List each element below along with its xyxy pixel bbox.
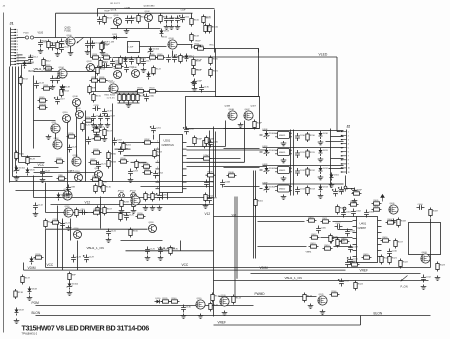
capacitor C121 (96, 162, 107, 170)
svg-text:R115: R115 (103, 62, 109, 64)
resistor R30B (92, 127, 102, 132)
svg-text:7: 7 (157, 180, 158, 182)
resistor R135 (169, 246, 179, 256)
svg-text:R206: R206 (144, 163, 150, 165)
svg-text:ZD300: ZD300 (269, 133, 276, 135)
svg-text:V12: V12 (85, 201, 91, 205)
transistor Q112 (53, 138, 62, 149)
resistor C123 (51, 219, 61, 224)
resistor R166 (96, 206, 106, 216)
transistor Q119 (196, 298, 205, 309)
svg-text:R154: R154 (100, 69, 106, 71)
svg-text:D312: D312 (323, 168, 329, 170)
svg-text:C8G: C8G (81, 209, 86, 211)
svg-text:C123: C123 (53, 219, 59, 221)
wire J1 down bus5 (21, 65, 23, 157)
capacitor C412 (421, 275, 432, 283)
capacitor C405 (316, 226, 327, 234)
wire U201 right pin 14 (183, 175, 187, 177)
transistor Q401 (389, 203, 398, 214)
wire J2 stub 7 (331, 158, 344, 160)
capacitor C126 (145, 247, 156, 255)
svg-text:OZ9957GN: OZ9957GN (162, 144, 174, 147)
svg-text:R12F: R12F (197, 60, 203, 62)
svg-text:R157: R157 (107, 131, 113, 133)
svg-text:C10M: C10M (125, 8, 131, 10)
resistor R129 (94, 184, 104, 194)
wire J2 stub 10 (329, 168, 344, 170)
ground (320, 310, 326, 315)
svg-text:R100: R100 (42, 41, 48, 43)
IC U401 body (357, 217, 378, 263)
transistor Q117 (131, 194, 140, 205)
diode D311 (319, 148, 329, 156)
wire top rail joint (97, 9, 99, 17)
wire row feed (224, 148, 260, 150)
transistor Q108 (73, 96, 81, 107)
wire vertical x255 (255, 171, 257, 259)
resistor R8D (99, 179, 108, 189)
svg-text:VBH1_1_ON: VBH1_1_ON (87, 246, 104, 250)
ground (105, 123, 111, 128)
diode D108 (28, 287, 38, 295)
wire mid vertical x100 (100, 197, 102, 229)
svg-text:R159: R159 (94, 209, 100, 211)
wire row y57 (113, 57, 149, 59)
svg-text:R132: R132 (48, 222, 54, 224)
resistor R401 (254, 198, 264, 208)
svg-text:Q108: Q108 (73, 96, 79, 98)
wire to U401 pin2 (333, 221, 353, 223)
resistor R123 (136, 88, 146, 93)
svg-text:C20B: C20B (123, 149, 129, 151)
svg-text:C409: C409 (353, 247, 359, 249)
wire to U401 pin3 (338, 229, 353, 231)
svg-text:T315HW07 V8 LED DRIVER BD 31T1: T315HW07 V8 LED DRIVER BD 31T14-D06 (22, 324, 150, 333)
svg-text:R149: R149 (158, 54, 164, 56)
svg-text:Q116: Q116 (74, 228, 80, 230)
resistor R124 (148, 88, 158, 93)
capacitor C103 (85, 41, 96, 49)
resistor R140 (170, 298, 180, 303)
svg-text:R426: R426 (340, 241, 346, 243)
diode D104 (147, 72, 157, 80)
ground (157, 206, 163, 211)
wire VCC bus (46, 267, 431, 269)
svg-text:R138: R138 (18, 292, 24, 294)
svg-text:R145: R145 (40, 97, 46, 99)
resistor R108 (190, 33, 200, 43)
svg-text:C120: C120 (72, 147, 78, 149)
svg-text:VDIM: VDIM (260, 266, 268, 270)
wire subbox right (95, 72, 97, 92)
svg-text:JP201: JP201 (118, 191, 125, 193)
wire bottom return (214, 324, 361, 326)
resistor R209 (132, 199, 142, 209)
resistor R111 (193, 43, 203, 48)
svg-text:Q40B: Q40B (225, 106, 231, 108)
ground (145, 256, 151, 261)
wire row top (263, 147, 331, 149)
svg-text:R143: R143 (236, 298, 242, 300)
resistor R103 (103, 15, 113, 25)
capacitor C147 (105, 114, 116, 122)
svg-text:D115: D115 (61, 195, 67, 197)
wire drop x90 (90, 38, 92, 58)
capacitor C134 (172, 55, 183, 63)
svg-text:J2: J2 (347, 125, 351, 129)
wire down to VCC line (57, 206, 59, 268)
capacitor C143 (34, 81, 45, 89)
svg-text:D105: D105 (30, 170, 36, 172)
wire y190 (16, 190, 66, 192)
svg-text:R155: R155 (96, 96, 102, 98)
resistor R20B (107, 159, 117, 169)
resistor R312 (306, 167, 316, 177)
capacitor C125 (124, 213, 135, 221)
svg-text:8: 8 (157, 187, 158, 189)
svg-text:R8D: R8D (103, 182, 108, 184)
diode ZD100 (148, 47, 160, 55)
diode D113 (124, 57, 134, 65)
wire top rail 2 (56, 12, 193, 14)
svg-text:VBH1_1_ON: VBH1_1_ON (34, 67, 51, 71)
svg-text:C408: C408 (350, 231, 356, 233)
capacitor C402 (351, 209, 362, 217)
capacitor C205 (156, 193, 168, 201)
transistor Q101 (114, 15, 122, 26)
resistor R208 (120, 199, 130, 209)
resistor R310 (306, 132, 316, 142)
svg-text:D108: D108 (32, 289, 38, 291)
capacitor C201 (150, 126, 162, 134)
resistor R128 (26, 156, 36, 166)
ground (435, 276, 441, 281)
svg-text:L10F: L10F (129, 47, 134, 49)
svg-text:R313: R313 (310, 189, 316, 191)
resistor R110 (192, 67, 202, 77)
svg-text:Q112: Q112 (54, 138, 60, 140)
resistor R105 (159, 14, 169, 24)
resistor R164 (60, 88, 70, 98)
resistor R30D (93, 135, 103, 140)
svg-text:R121: R121 (213, 71, 219, 73)
capacitor C102 (59, 45, 70, 53)
wire row top (263, 183, 331, 185)
svg-text:R311 R312: R311 R312 (105, 95, 116, 97)
resistor R313 (306, 186, 316, 196)
wire VDIM left riser (23, 263, 25, 271)
wire link (115, 148, 131, 150)
diode D312 (319, 166, 329, 174)
wire U201 bottom pin drop2 (167, 193, 169, 200)
wire J1 down bus4 (18, 67, 20, 163)
capacitor C101 (59, 39, 70, 47)
svg-text:FUSE: FUSE (65, 30, 72, 33)
svg-text:R137: R137 (25, 278, 31, 280)
svg-text:C310: C310 (300, 135, 306, 137)
capacitor C401 (341, 210, 352, 218)
resistor R102 (101, 41, 111, 51)
resistor R162 (19, 76, 29, 86)
svg-text:Q119: Q119 (197, 298, 203, 300)
svg-text:D301: D301 (334, 175, 340, 177)
ground (203, 204, 209, 209)
svg-text:R116b: R116b (198, 45, 205, 47)
capacitor C406 (329, 236, 340, 244)
resistor R206 (142, 163, 152, 168)
diode D111 (112, 34, 120, 40)
resistor R121 (209, 68, 219, 78)
resistor R148 (148, 54, 158, 59)
capacitor C128 (71, 255, 82, 263)
svg-text:C114: C114 (33, 57, 39, 59)
wire U201 drive A (187, 146, 226, 148)
connector J2 (341, 130, 350, 175)
svg-text:R158: R158 (94, 149, 100, 151)
resistor R210 (144, 192, 154, 202)
svg-text:D311: D311 (323, 150, 329, 152)
resistor R153 (114, 63, 124, 68)
capacitor C133 (166, 55, 177, 63)
wire J1 bus2 turn right (13, 176, 53, 178)
wire gate feed (140, 46, 167, 48)
svg-text:C138: C138 (94, 105, 100, 107)
wire Q103 drain to rail (178, 44, 193, 46)
svg-text:R406: R406 (374, 206, 380, 208)
resistor R151 (204, 24, 214, 34)
wire VREF (251, 273, 421, 275)
wire VDIM bus (24, 269, 346, 271)
wire cluster feed (258, 221, 305, 223)
diode D103 (160, 29, 170, 37)
diode D115 (57, 193, 67, 201)
svg-text:R122: R122 (156, 69, 162, 71)
wire subcircuit left edge (33, 76, 35, 149)
capacitor C137 (102, 62, 110, 68)
wire down to VDIM (77, 241, 79, 271)
ground (352, 199, 358, 204)
svg-text:Q40T: Q40T (245, 109, 251, 111)
svg-text:R139: R139 (163, 298, 169, 300)
svg-text:R312: R312 (310, 170, 316, 172)
svg-text:D33F: D33F (263, 183, 269, 185)
resistor R161 (42, 85, 52, 90)
ground (150, 206, 156, 211)
resistor R151b (208, 24, 219, 34)
svg-text:C30D: C30D (149, 96, 155, 98)
resistor R133 (119, 212, 129, 222)
wire vertical x85 (85, 111, 87, 182)
wire J2 stub 2 (331, 136, 344, 138)
wire row bus C (330, 129, 332, 188)
svg-text:R160: R160 (133, 231, 139, 233)
svg-text:ZD102: ZD102 (72, 284, 79, 286)
svg-text:D112: D112 (189, 56, 195, 58)
svg-text:R148: R148 (150, 54, 156, 56)
wire drop to rail2 (148, 23, 150, 29)
ground (40, 178, 46, 183)
resistor R119 (137, 56, 147, 66)
transistor Q102 (145, 11, 153, 22)
wire fuse to Q100 (35, 37, 67, 39)
svg-text:VBH1_1_ON: VBH1_1_ON (158, 246, 175, 250)
ground (60, 85, 66, 90)
capacitor C109 (169, 16, 180, 24)
wire U401 right pin 2 (378, 226, 382, 228)
svg-text:C403: C403 (369, 212, 375, 214)
capacitor C202 (112, 138, 123, 146)
svg-text:R5C: R5C (210, 45, 215, 47)
capacitor C312 (295, 168, 306, 176)
resistor R404 (336, 205, 346, 215)
svg-text:R20D: R20D (111, 154, 117, 156)
wire PGM bus (36, 305, 254, 307)
capacitor C404 (417, 204, 425, 210)
svg-text:C125: C125 (129, 215, 135, 217)
svg-text:R11F: R11F (196, 41, 202, 43)
resistor R412 (310, 234, 320, 239)
svg-text:C312: C312 (300, 170, 306, 172)
resistor R413 (309, 243, 319, 248)
capacitor C313 (295, 187, 306, 195)
svg-text:R134: R134 (138, 213, 144, 215)
wire mid vertical x45 (45, 183, 47, 213)
wire row top (263, 130, 331, 132)
inductor L10F body (128, 42, 140, 53)
svg-text:Q101: Q101 (114, 15, 120, 17)
ground (68, 51, 74, 56)
wire row y67 (86, 67, 113, 69)
ground (85, 50, 91, 55)
resistor R109 (192, 58, 202, 68)
capacitor C411 (347, 257, 359, 265)
svg-text:R144: R144 (307, 296, 313, 298)
svg-text:R311: R311 (310, 152, 316, 154)
svg-text:R162: R162 (23, 79, 29, 81)
svg-text:R123: R123 (138, 88, 144, 90)
wire VLED drop to J2 (336, 57, 338, 132)
ground (318, 157, 324, 162)
ground (46, 135, 52, 140)
transistor Q116 (74, 228, 82, 239)
svg-text:R423: R423 (440, 265, 446, 267)
transistor Q111 (51, 122, 60, 133)
wire row stub (260, 169, 263, 171)
ground (102, 137, 108, 142)
capacitor C407 (335, 223, 343, 229)
box right module (409, 223, 441, 255)
wire U201 left pin 2 (156, 148, 160, 150)
ground (281, 176, 287, 181)
svg-text:R128: R128 (30, 159, 36, 161)
svg-text:Q110: Q110 (63, 112, 69, 114)
resistor R410 (307, 217, 317, 222)
wire U401 left pin 1 (353, 220, 357, 222)
svg-text:Q120: Q120 (221, 295, 227, 297)
wire J1 down bus1 (9, 67, 11, 183)
jumper JP201 (118, 192, 124, 196)
svg-text:R405: R405 (374, 200, 380, 202)
svg-text:ZD301: ZD301 (269, 150, 276, 152)
test point TP402 (343, 207, 346, 212)
wire to U201 pin3 (124, 155, 156, 157)
svg-text:C115: C115 (115, 61, 121, 63)
ground (192, 87, 198, 92)
resistor R423 (436, 262, 446, 272)
wire U201 left pin 5 (156, 168, 160, 170)
wire VCC box corner (45, 229, 47, 267)
ground (14, 319, 20, 324)
wire U201 left pin 4 (156, 161, 160, 163)
svg-text:D109: D109 (19, 310, 25, 312)
resistor R157 (103, 128, 113, 138)
svg-text:VREF: VREF (360, 269, 369, 273)
wire (346, 188, 355, 190)
resistor R116 (102, 54, 112, 59)
resistor R426 (336, 238, 346, 248)
capacitor C113 (55, 76, 65, 84)
wire Q108-Q113 chain (76, 107, 78, 157)
capacitor C105 (97, 17, 108, 25)
svg-text:C405: C405 (321, 228, 327, 230)
resistor R203 (153, 149, 163, 159)
capacitor C40B (220, 180, 231, 188)
svg-text:PWMD: PWMD (255, 292, 266, 296)
svg-text:U401: U401 (360, 222, 367, 226)
diode ZD302 (264, 166, 276, 174)
wire vertical x234 to PWMD (234, 197, 236, 298)
wire U401 left pin 5 (353, 244, 357, 246)
capacitor C204 (153, 171, 164, 179)
svg-text:Q103: Q103 (169, 38, 175, 40)
wire to U401 pin4 (321, 237, 353, 239)
transistor Q122 (87, 61, 95, 72)
wire U201 right pin 16 (183, 188, 187, 190)
resistor R414 (323, 245, 333, 250)
wire row stub (260, 151, 263, 153)
capacitor C136 (129, 57, 140, 65)
svg-text:R30D: R30D (95, 135, 101, 137)
svg-text:C10F: C10F (181, 10, 187, 12)
svg-text:R114: R114 (93, 54, 99, 56)
resistor R168 (55, 158, 65, 163)
capacitor C311 (295, 150, 305, 158)
ground (98, 123, 104, 128)
svg-text:R125: R125 (85, 125, 91, 127)
transistor Q106 (132, 67, 140, 78)
ground (126, 103, 132, 108)
wire mid left edge (33, 176, 35, 198)
svg-text:C205: C205 (162, 195, 168, 197)
ground (14, 176, 20, 181)
transistor Q104 (58, 67, 67, 78)
svg-text:C128: C128 (76, 257, 82, 259)
wire J1 down bus2 (12, 67, 14, 177)
svg-text:R136: R136 (36, 254, 42, 256)
svg-text:R418: R418 (352, 261, 358, 263)
svg-text:R403: R403 (351, 201, 357, 203)
IC U300 (275, 132, 292, 139)
capacitor C112 (50, 76, 60, 84)
svg-text:C410: C410 (392, 251, 398, 253)
svg-text:R164: R164 (64, 91, 70, 93)
capacitor C413 (338, 279, 350, 287)
svg-text:R140: R140 (172, 298, 178, 300)
resistor R202 (143, 139, 153, 144)
resistor R146 (330, 291, 340, 296)
ground (318, 194, 324, 199)
